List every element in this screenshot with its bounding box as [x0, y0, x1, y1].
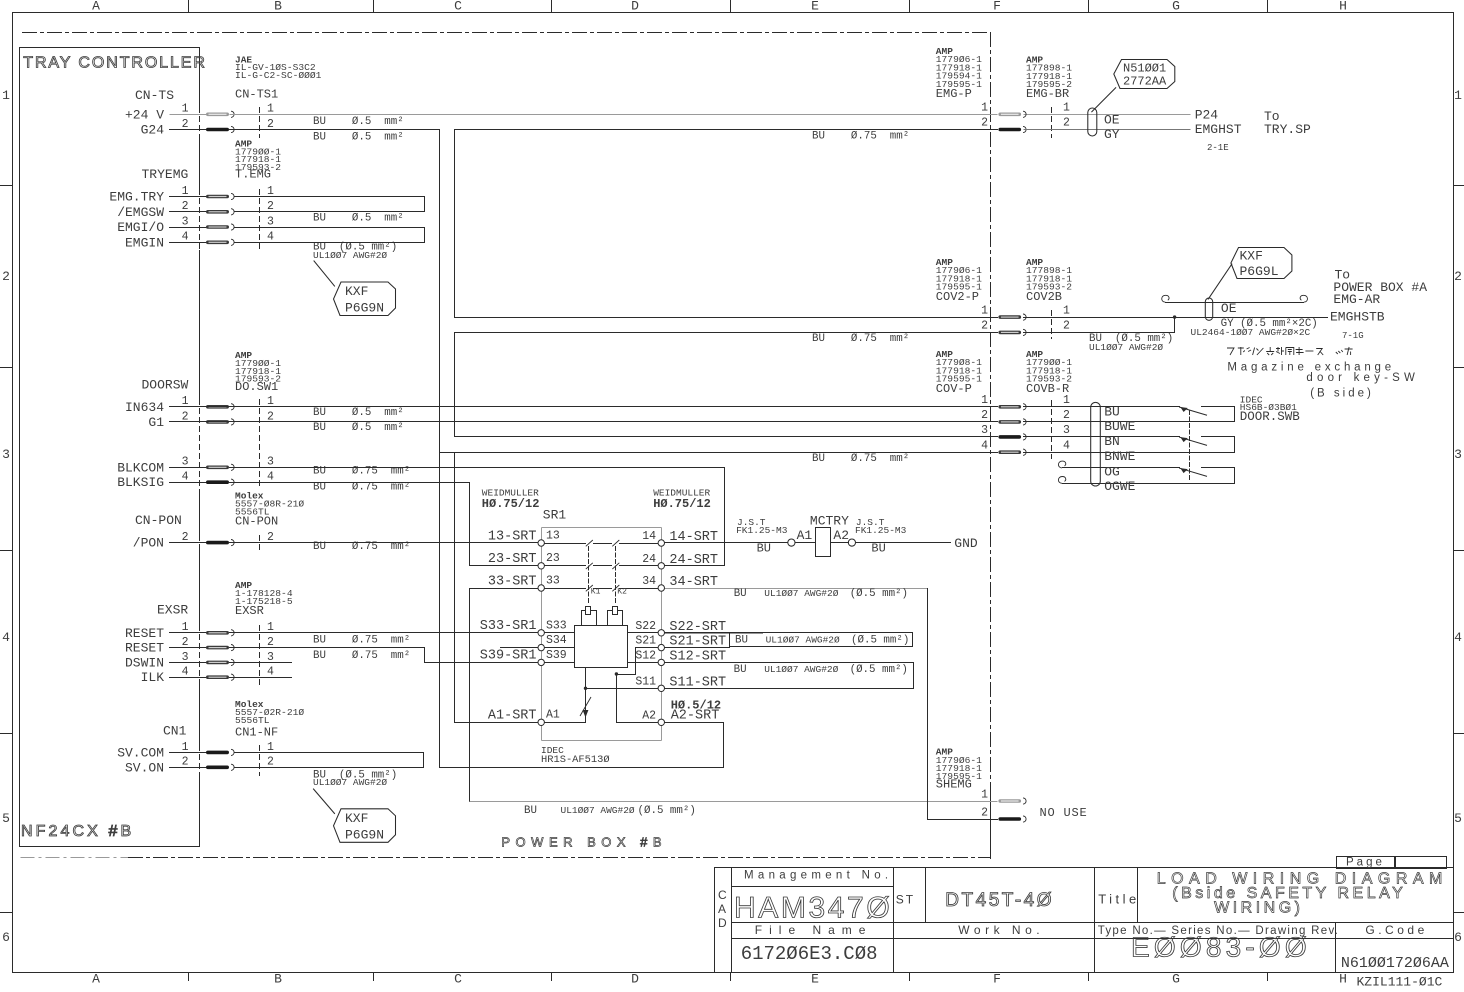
svg-text:G: G [1172, 0, 1180, 14]
svg-text:5556TL: 5556TL [235, 715, 270, 726]
svg-text:HR1S-AF513Ø: HR1S-AF513Ø [541, 754, 610, 766]
svg-text:(Ø.5 mm²): (Ø.5 mm²) [850, 664, 908, 676]
svg-text:UL1ØØ7 AWG#2Ø: UL1ØØ7 AWG#2Ø [1089, 342, 1163, 353]
svg-text:BU: BU [757, 541, 771, 555]
svg-text:COV2-P: COV2-P [936, 290, 979, 304]
svg-text:2: 2 [1454, 269, 1462, 284]
svg-text:UL1ØØ7 AWG#2Ø: UL1ØØ7 AWG#2Ø [313, 250, 387, 261]
svg-text:TRYEMG: TRYEMG [142, 167, 189, 182]
svg-text:C: C [454, 972, 462, 987]
svg-text:D: D [631, 972, 639, 987]
svg-text:DSWIN: DSWIN [125, 655, 164, 670]
svg-text:NO USE: NO USE [1040, 806, 1088, 820]
svg-text:2: 2 [1063, 409, 1070, 422]
svg-text:P24: P24 [1195, 107, 1219, 122]
svg-text:4: 4 [182, 231, 189, 244]
svg-text:BNWE: BNWE [1104, 449, 1135, 464]
svg-text:4: 4 [267, 231, 274, 244]
svg-text:BU: BU [871, 541, 885, 555]
svg-text:GY: GY [1104, 127, 1120, 142]
svg-text:24: 24 [642, 553, 656, 566]
svg-text:EMG-AR: EMG-AR [1333, 292, 1380, 307]
svg-text:3: 3 [981, 424, 988, 437]
svg-text:CN-TS1: CN-TS1 [235, 88, 278, 102]
svg-text:K2: K2 [617, 588, 627, 597]
svg-text:EMG-BR: EMG-BR [1026, 87, 1069, 101]
svg-text:F: F [993, 972, 1001, 987]
svg-text:3: 3 [1063, 424, 1070, 437]
svg-text:3: 3 [182, 456, 189, 469]
svg-text:RESET: RESET [125, 626, 164, 641]
svg-text:UL1ØØ7 AWG#2Ø: UL1ØØ7 AWG#2Ø [313, 777, 387, 788]
svg-text:2: 2 [267, 118, 274, 131]
svg-text:S12: S12 [635, 649, 656, 662]
svg-text:E: E [811, 972, 819, 987]
svg-text:BN: BN [1104, 434, 1120, 449]
svg-text:Work No.: Work No. [958, 923, 1044, 937]
svg-text:FK1.25-M3: FK1.25-M3 [855, 525, 907, 536]
svg-text:BU Ø.75 mm²: BU Ø.75 mm² [812, 333, 909, 345]
svg-text:23: 23 [546, 552, 560, 565]
svg-text:(Ø.5 mm²): (Ø.5 mm²) [638, 805, 696, 817]
svg-text:OG: OG [1104, 465, 1120, 480]
svg-text:DOORSW: DOORSW [142, 378, 189, 393]
svg-text:1: 1 [981, 394, 988, 407]
svg-text:CN1-NF: CN1-NF [235, 726, 278, 740]
svg-text:G24: G24 [141, 123, 165, 138]
svg-text:CN1: CN1 [163, 724, 187, 739]
svg-text:B: B [274, 972, 282, 987]
svg-text:DO.SW1: DO.SW1 [235, 380, 278, 394]
svg-text:EMG.TRY: EMG.TRY [109, 190, 164, 205]
svg-text:2: 2 [1063, 117, 1070, 130]
svg-text:Title: Title [1098, 891, 1140, 906]
svg-text:TRY.SP: TRY.SP [1264, 122, 1311, 137]
svg-text:SHEMG: SHEMG [936, 778, 972, 792]
svg-text:S39-SR1: S39-SR1 [480, 649, 537, 664]
svg-text:5: 5 [2, 811, 10, 826]
svg-text:1: 1 [981, 789, 988, 802]
svg-text:ST: ST [896, 892, 915, 906]
svg-text:13-SRT: 13-SRT [488, 529, 537, 544]
svg-text:3: 3 [267, 651, 274, 664]
svg-text:BU Ø.75 mm²: BU Ø.75 mm² [313, 635, 410, 647]
svg-text:EXSR: EXSR [157, 602, 188, 617]
svg-text:33: 33 [546, 574, 560, 587]
svg-text:SV.ON: SV.ON [125, 760, 164, 775]
svg-text:2: 2 [182, 756, 189, 769]
svg-text:4: 4 [182, 666, 189, 679]
svg-text:UL1ØØ7 AWG#2Ø: UL1ØØ7 AWG#2Ø [764, 588, 838, 599]
svg-text:Page: Page [1346, 856, 1385, 868]
svg-text:1: 1 [182, 103, 189, 116]
svg-text:BU Ø.5 mm²: BU Ø.5 mm² [313, 212, 404, 224]
svg-text:1: 1 [1454, 88, 1462, 103]
svg-text:S22-SRT: S22-SRT [669, 620, 726, 635]
svg-text:6: 6 [1454, 930, 1462, 945]
svg-text:2: 2 [1063, 320, 1070, 333]
svg-text:13: 13 [546, 529, 560, 542]
svg-text:G.Code: G.Code [1365, 923, 1427, 937]
svg-text:D: D [718, 916, 727, 930]
svg-text:A: A [718, 902, 726, 916]
svg-text:2772AA: 2772AA [1123, 75, 1167, 89]
svg-text:C: C [718, 888, 727, 902]
svg-text:RESET: RESET [125, 641, 164, 656]
svg-text:EMGIN: EMGIN [125, 235, 164, 250]
svg-text:1: 1 [267, 185, 274, 198]
svg-text:UL1ØØ7 AWG#2Ø: UL1ØØ7 AWG#2Ø [764, 664, 838, 675]
svg-text:BU Ø.75 mm²: BU Ø.75 mm² [812, 453, 909, 465]
svg-text:COV-P: COV-P [936, 382, 972, 396]
svg-text:1: 1 [267, 741, 274, 754]
svg-text:/EMGSW: /EMGSW [117, 205, 164, 220]
svg-text:2: 2 [981, 117, 988, 130]
svg-text:A: A [92, 0, 100, 14]
svg-text:BLKSIG: BLKSIG [117, 475, 164, 490]
svg-text:1: 1 [1063, 394, 1070, 407]
svg-text:3: 3 [182, 215, 189, 228]
svg-text:A2: A2 [833, 528, 849, 543]
svg-text:34: 34 [642, 575, 656, 588]
svg-text:D: D [631, 0, 639, 14]
svg-text:1: 1 [1063, 304, 1070, 317]
svg-text:24-SRT: 24-SRT [669, 553, 718, 568]
svg-text:4: 4 [2, 630, 10, 645]
svg-text:EØØ83-ØØ: EØØ83-ØØ [1131, 932, 1311, 963]
svg-text:BU Ø.75 mm²: BU Ø.75 mm² [313, 650, 410, 662]
svg-text:COV2B: COV2B [1026, 290, 1062, 304]
svg-text:6: 6 [2, 930, 10, 945]
svg-text:BU Ø.75 mm²: BU Ø.75 mm² [313, 482, 410, 494]
svg-text:N51ØØ1: N51ØØ1 [1123, 62, 1166, 76]
svg-text:HØ.75/12: HØ.75/12 [653, 497, 711, 511]
svg-text:DT45T-4Ø: DT45T-4Ø [945, 890, 1054, 911]
svg-text:4: 4 [1454, 630, 1462, 645]
svg-text:1: 1 [981, 304, 988, 317]
svg-text:3: 3 [2, 447, 10, 462]
svg-text:HØ.75/12: HØ.75/12 [482, 497, 540, 511]
svg-text:6172Ø6E3.CØ8: 6172Ø6E3.CØ8 [741, 943, 878, 965]
svg-text:IN634: IN634 [125, 400, 164, 415]
svg-text:1: 1 [182, 185, 189, 198]
svg-text:CN-PON: CN-PON [135, 513, 182, 528]
svg-text:2: 2 [981, 409, 988, 422]
svg-text:C: C [454, 0, 462, 14]
svg-text:CN-PON: CN-PON [235, 514, 278, 528]
svg-text:EXSR: EXSR [235, 604, 264, 618]
svg-text:A1-SRT: A1-SRT [488, 708, 537, 723]
svg-text:5: 5 [1454, 811, 1462, 826]
svg-text:OGWE: OGWE [1104, 479, 1135, 494]
svg-text:(B side): (B side) [1310, 387, 1374, 399]
svg-text:TRAY CONTROLLER: TRAY CONTROLLER [23, 55, 207, 72]
svg-text:S11-SRT: S11-SRT [669, 676, 726, 691]
svg-text:T.EMG: T.EMG [235, 168, 271, 182]
svg-text:1: 1 [981, 102, 988, 115]
svg-text:BLKCOM: BLKCOM [117, 460, 164, 475]
svg-text:BU: BU [734, 588, 747, 600]
svg-text:MCTRY: MCTRY [810, 514, 849, 529]
svg-text:14: 14 [642, 530, 656, 543]
svg-text:door key-SW: door key-SW [1306, 372, 1419, 384]
svg-text:BU Ø.5 mm²: BU Ø.5 mm² [313, 407, 404, 419]
svg-text:2: 2 [182, 118, 189, 131]
svg-text:4: 4 [182, 471, 189, 484]
svg-text:A1: A1 [546, 709, 560, 722]
svg-text:G1: G1 [148, 415, 164, 430]
svg-text:S34: S34 [546, 634, 567, 647]
svg-text:BU Ø.5 mm²: BU Ø.5 mm² [313, 116, 404, 128]
svg-text:4: 4 [1063, 439, 1070, 452]
svg-text:23-SRT: 23-SRT [488, 552, 537, 567]
svg-text:3: 3 [267, 456, 274, 469]
svg-text:33-SRT: 33-SRT [488, 574, 537, 589]
svg-text:2: 2 [2, 269, 10, 284]
svg-text:HAM347Ø: HAM347Ø [734, 891, 892, 924]
svg-text:N61ØØ172Ø6AA: N61ØØ172Ø6AA [1341, 955, 1449, 972]
svg-text:Management No.: Management No. [744, 869, 892, 881]
svg-text:2: 2 [267, 756, 274, 769]
svg-text:EMGHSTB: EMGHSTB [1330, 310, 1385, 325]
svg-text:BU: BU [1104, 405, 1120, 420]
svg-text:H: H [1339, 972, 1347, 987]
svg-text:(Ø.5 mm²): (Ø.5 mm²) [851, 634, 909, 646]
svg-text:BU: BU [735, 634, 748, 646]
svg-text:File Name: File Name [755, 923, 873, 937]
svg-text:3: 3 [1454, 447, 1462, 462]
svg-text:WIRING): WIRING) [1214, 899, 1303, 916]
svg-text:EMG-P: EMG-P [936, 87, 972, 101]
svg-text:3: 3 [267, 215, 274, 228]
svg-text:B: B [274, 0, 282, 14]
svg-text:FK1.25-M3: FK1.25-M3 [736, 525, 788, 536]
svg-text:34-SRT: 34-SRT [669, 575, 718, 590]
svg-text:7-1G: 7-1G [1342, 331, 1364, 341]
svg-text:1: 1 [2, 88, 10, 103]
svg-text:UL1ØØ7 AWG#2Ø: UL1ØØ7 AWG#2Ø [561, 805, 635, 816]
svg-text:1: 1 [267, 103, 274, 116]
svg-text:14-SRT: 14-SRT [669, 530, 718, 545]
svg-text:S22: S22 [635, 620, 656, 633]
svg-text:A2: A2 [642, 709, 656, 722]
svg-text:SR1: SR1 [543, 508, 567, 523]
svg-text:A1: A1 [797, 528, 813, 543]
svg-text:4: 4 [267, 471, 274, 484]
svg-text:ILK: ILK [141, 670, 165, 685]
svg-text:S33-SR1: S33-SR1 [480, 619, 537, 634]
svg-text:POWER BOX #B: POWER BOX #B [501, 835, 667, 850]
svg-text:SV.COM: SV.COM [117, 745, 164, 760]
svg-text:EMGI/O: EMGI/O [117, 220, 164, 235]
svg-text:CN-TS: CN-TS [135, 88, 174, 103]
svg-text:K1: K1 [591, 588, 601, 597]
svg-text:2: 2 [981, 807, 988, 820]
svg-text:F: F [993, 0, 1001, 14]
svg-text:S39: S39 [546, 649, 567, 662]
svg-text:S21-SRT: S21-SRT [669, 635, 726, 650]
svg-text:IL-G-C2-SC-ØØØ1: IL-G-C2-SC-ØØØ1 [235, 70, 322, 81]
svg-text:EMGHST: EMGHST [1195, 122, 1242, 137]
svg-text:G: G [1172, 972, 1180, 987]
svg-text:(Ø.5 mm²): (Ø.5 mm²) [850, 588, 908, 600]
svg-text:2: 2 [981, 320, 988, 333]
svg-text:BUWE: BUWE [1104, 419, 1135, 434]
svg-text:UL1ØØ7 AWG#2Ø: UL1ØØ7 AWG#2Ø [766, 634, 840, 645]
svg-text:P6G9N: P6G9N [345, 301, 384, 316]
svg-text:BU Ø.5 mm²: BU Ø.5 mm² [313, 132, 404, 144]
svg-text:1: 1 [182, 741, 189, 754]
svg-text:S11: S11 [635, 676, 656, 689]
svg-text:BU: BU [734, 664, 747, 676]
svg-text:NF24CX #B: NF24CX #B [21, 823, 134, 840]
svg-text:H: H [1339, 0, 1347, 14]
svg-text:GND: GND [954, 536, 978, 551]
svg-text:4: 4 [267, 666, 274, 679]
svg-text:DOOR.SWB: DOOR.SWB [1240, 410, 1301, 424]
svg-text:OE: OE [1221, 301, 1237, 316]
svg-text:3: 3 [182, 651, 189, 664]
svg-text:S33: S33 [546, 619, 567, 632]
svg-text:A2-SRT: A2-SRT [671, 708, 720, 723]
svg-text:S12-SRT: S12-SRT [669, 649, 726, 664]
svg-text:KXF: KXF [345, 811, 368, 826]
svg-text:4: 4 [981, 439, 988, 452]
svg-text:P6G9N: P6G9N [345, 827, 384, 842]
svg-text:+24 V: +24 V [125, 107, 164, 122]
svg-text:BU Ø.75 mm²: BU Ø.75 mm² [812, 131, 909, 143]
svg-text:1: 1 [1063, 102, 1070, 115]
svg-text:BU: BU [524, 805, 537, 817]
svg-text:KXF: KXF [1240, 248, 1263, 263]
svg-text:/PON: /PON [133, 536, 164, 551]
svg-text:S21: S21 [635, 635, 656, 648]
svg-text:A: A [92, 972, 100, 987]
svg-text:UL2464-1ØØ7 AWG#2Ø×2C: UL2464-1ØØ7 AWG#2Ø×2C [1191, 327, 1311, 338]
svg-text:KZIL111-Ø1C: KZIL111-Ø1C [1357, 974, 1443, 989]
svg-text:E: E [811, 0, 819, 14]
svg-text:2-1E: 2-1E [1207, 143, 1229, 153]
svg-text:OE: OE [1104, 112, 1120, 127]
svg-text:KXF: KXF [345, 284, 368, 299]
svg-text:BU Ø.5 mm²: BU Ø.5 mm² [313, 422, 404, 434]
svg-text:P6G9L: P6G9L [1240, 264, 1279, 279]
